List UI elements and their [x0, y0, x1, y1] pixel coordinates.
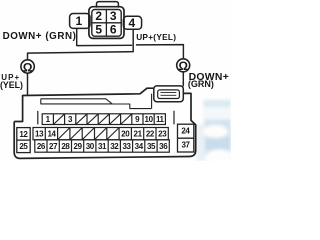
C2 keyway profile	[41, 94, 152, 109]
C2 latch ribs	[161, 92, 177, 95]
svg-text:1: 1	[46, 115, 51, 124]
left ring terminal UP+	[21, 60, 34, 73]
svg-text:34: 34	[135, 142, 144, 151]
svg-text:DOWN+ (GRN): DOWN+ (GRN)	[3, 31, 77, 42]
C1 cell divider vertical	[105, 10, 107, 37]
right ring terminal DOWN+	[177, 59, 190, 72]
svg-text:27: 27	[49, 142, 58, 151]
svg-text:3: 3	[68, 115, 73, 124]
svg-text:23: 23	[158, 130, 167, 139]
svg-text:24: 24	[181, 127, 190, 136]
svg-text:13: 13	[35, 130, 44, 139]
connector C1 top latch tab	[97, 2, 119, 7]
svg-text:29: 29	[74, 142, 83, 151]
svg-text:9: 9	[135, 115, 140, 124]
svg-text:11: 11	[156, 115, 165, 124]
C2 cavity wall left	[37, 111, 39, 125]
svg-text:20: 20	[121, 130, 130, 139]
C1 cell divider horizontal	[92, 22, 121, 24]
svg-text:(GRN): (GRN)	[188, 79, 214, 89]
svg-text:5: 5	[95, 23, 102, 37]
wire from left terminal down to connector C2	[27, 73, 29, 95]
svg-text:33: 33	[122, 142, 131, 151]
svg-text:3: 3	[110, 9, 117, 23]
svg-text:21: 21	[134, 130, 143, 139]
C2 side box pins 24/37	[178, 124, 194, 152]
C2 pin row 3 (pins 26-36)	[35, 140, 170, 152]
svg-text:36: 36	[159, 142, 168, 151]
connector C2 outer shell	[14, 88, 196, 158]
C2 pin row 1 (pins 1-11)	[42, 114, 165, 125]
hatched (unused) cavities	[58, 128, 119, 139]
C2 latch housing	[154, 86, 184, 102]
C2 side box pins 12/25	[17, 128, 30, 153]
svg-text:22: 22	[146, 130, 155, 139]
C2 latch inner window	[158, 90, 180, 99]
svg-text:6: 6	[110, 23, 117, 37]
svg-text:35: 35	[147, 142, 156, 151]
svg-text:UP+(YEL): UP+(YEL)	[136, 32, 176, 42]
svg-text:28: 28	[61, 142, 70, 151]
svg-text:(YEL): (YEL)	[0, 80, 23, 90]
wire UP+ from C1 pin 4 to left terminal	[28, 30, 134, 60]
svg-text:25: 25	[19, 142, 28, 151]
svg-text:26: 26	[37, 142, 46, 151]
svg-text:31: 31	[98, 142, 107, 151]
connector C1 body	[89, 7, 124, 39]
svg-text:4: 4	[129, 16, 136, 30]
wire DOWN+ from C1 pin 1 to right terminal (left segment)	[77, 29, 133, 46]
C2 pin row 2 (pins 13-23)	[33, 128, 168, 140]
svg-text:30: 30	[86, 142, 95, 151]
svg-text:Ω: Ω	[178, 59, 187, 73]
wire from right terminal down to connector C2 latch	[182, 72, 184, 87]
svg-text:14: 14	[47, 130, 56, 139]
svg-text:2: 2	[95, 9, 102, 23]
svg-text:37: 37	[181, 141, 190, 150]
connector C1 inner cell block	[92, 10, 121, 37]
svg-text:12: 12	[19, 130, 28, 139]
svg-text:1: 1	[75, 14, 82, 28]
svg-text:Ω: Ω	[23, 60, 33, 74]
C2 cavity wall right	[173, 111, 175, 125]
wire DOWN+ continuation after crossover to right terminal	[136, 45, 184, 59]
C1 pin 1 cavity box	[70, 14, 90, 29]
C1 pin 4 cavity box	[123, 16, 141, 29]
hatched (unused) cavities	[54, 114, 132, 124]
svg-text:10: 10	[145, 115, 154, 124]
svg-text:32: 32	[110, 142, 119, 151]
